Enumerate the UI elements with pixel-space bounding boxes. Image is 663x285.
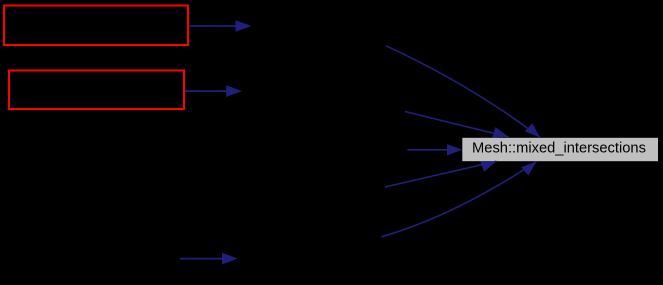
svg-text:Mesh::mixed_intersections: Mesh::mixed_intersections (472, 141, 646, 157)
